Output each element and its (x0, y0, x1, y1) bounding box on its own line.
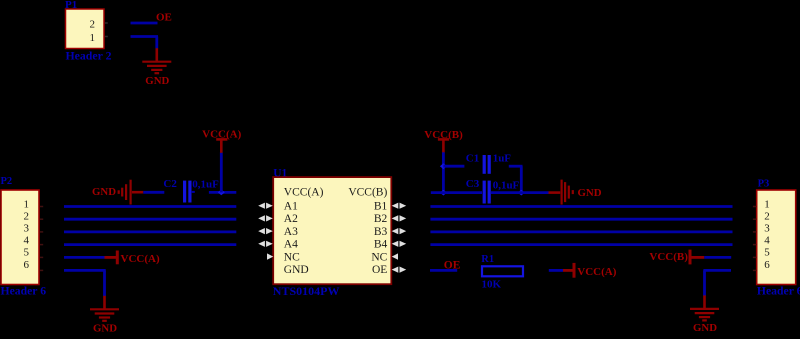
svg-text:6: 6 (764, 259, 770, 271)
svg-text:5: 5 (764, 247, 770, 259)
svg-text:C3: C3 (466, 178, 480, 190)
svg-text:B2: B2 (374, 213, 388, 225)
svg-text:VCC(B): VCC(B) (649, 251, 688, 263)
svg-text:NTS0104PW: NTS0104PW (273, 284, 340, 298)
svg-text:A4: A4 (284, 239, 298, 251)
svg-text:B3: B3 (374, 226, 388, 238)
svg-text:B4: B4 (374, 239, 388, 251)
svg-text:2: 2 (764, 211, 770, 223)
svg-text:3: 3 (764, 223, 770, 235)
svg-text:C2: C2 (163, 178, 177, 190)
svg-text:A1: A1 (284, 200, 298, 212)
svg-text:C1: C1 (466, 153, 479, 165)
svg-text:2: 2 (90, 19, 96, 31)
svg-text:1: 1 (764, 199, 770, 211)
svg-text:GND: GND (284, 264, 309, 276)
svg-text:10K: 10K (482, 279, 502, 291)
svg-text:P3: P3 (758, 179, 770, 190)
svg-text:GND: GND (92, 186, 116, 198)
svg-text:4: 4 (764, 235, 770, 247)
svg-text:OE: OE (156, 12, 172, 24)
svg-text:0,1uF: 0,1uF (192, 178, 219, 190)
svg-text:VCC(A): VCC(A) (202, 128, 241, 140)
svg-text:1uF: 1uF (493, 153, 512, 165)
svg-text:2: 2 (24, 211, 30, 223)
svg-text:A3: A3 (284, 226, 298, 238)
svg-text:P2: P2 (1, 176, 13, 187)
svg-text:VCC(A): VCC(A) (577, 266, 616, 278)
svg-text:3: 3 (24, 223, 30, 235)
svg-text:OE: OE (372, 264, 387, 276)
svg-text:Header 2: Header 2 (66, 49, 112, 63)
svg-text:VCC(A): VCC(A) (121, 253, 160, 265)
svg-text:VCC(B): VCC(B) (348, 187, 387, 199)
svg-text:GND: GND (93, 323, 117, 334)
svg-text:5: 5 (24, 247, 30, 259)
svg-text:4: 4 (24, 235, 30, 247)
svg-text:Header 6: Header 6 (757, 285, 800, 298)
svg-text:GND: GND (578, 187, 602, 199)
svg-text:1: 1 (90, 32, 96, 44)
svg-text:0,1uF: 0,1uF (493, 179, 520, 191)
svg-text:VCC(A): VCC(A) (284, 187, 324, 199)
svg-text:Header 6: Header 6 (1, 285, 47, 298)
svg-text:B1: B1 (374, 200, 388, 212)
svg-text:NC: NC (371, 251, 387, 263)
svg-text:R1: R1 (481, 254, 494, 265)
svg-text:A2: A2 (284, 213, 298, 225)
svg-text:GND: GND (145, 75, 169, 87)
svg-text:1: 1 (24, 199, 30, 211)
svg-text:NC: NC (284, 251, 300, 263)
svg-text:OE: OE (444, 260, 461, 272)
svg-text:6: 6 (24, 259, 30, 271)
svg-text:GND: GND (693, 322, 717, 334)
